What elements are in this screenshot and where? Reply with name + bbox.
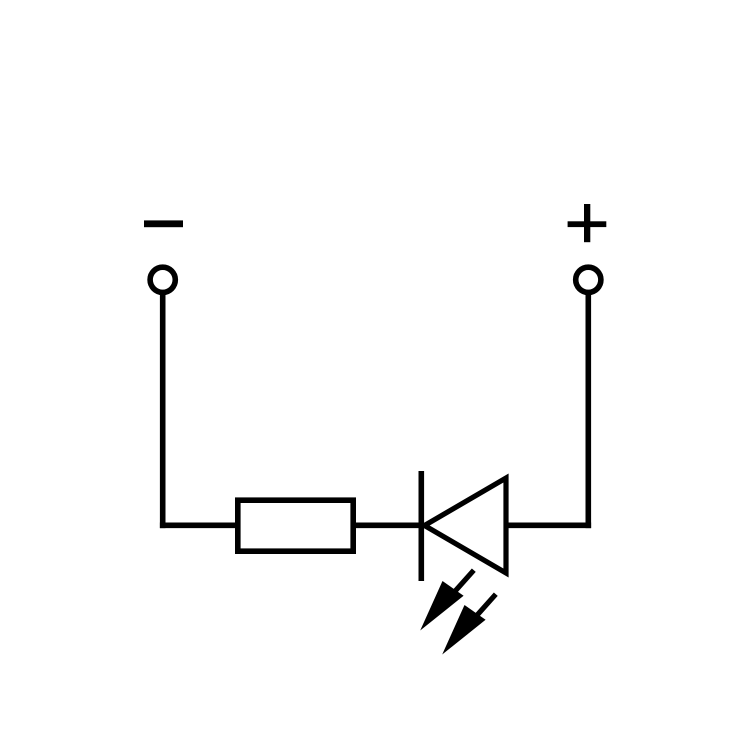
wire: LED anode to right vertical bbox=[506, 522, 591, 528]
LED cathode bar bbox=[418, 471, 424, 581]
plus polarity label bbox=[568, 204, 607, 242]
LED triangle (anode) bbox=[425, 478, 507, 573]
terminal circle (minus) bbox=[150, 267, 175, 292]
wire: left vertical from minus terminal bbox=[160, 292, 166, 528]
wire: resistor to LED cathode bbox=[356, 522, 421, 528]
LED emission arrow 1 bbox=[420, 570, 474, 630]
minus polarity label bbox=[144, 220, 183, 227]
LED emission arrow 2 bbox=[442, 594, 496, 654]
wire: right vertical from plus terminal bbox=[585, 292, 591, 528]
resistor R1 bbox=[238, 500, 353, 551]
wire: bottom horizontal from left corner to resistor bbox=[160, 522, 236, 528]
terminal circle (plus) bbox=[576, 267, 601, 292]
